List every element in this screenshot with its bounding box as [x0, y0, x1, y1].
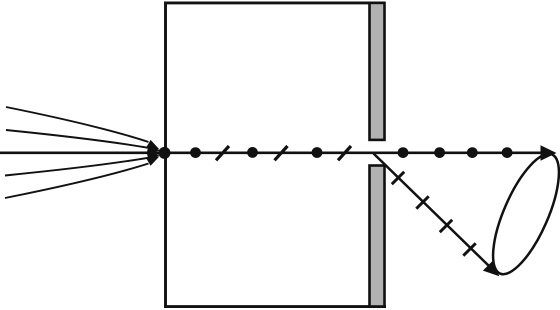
scattering slash 1 — [216, 146, 229, 160]
chamber box (left, top, bottom walls) — [164, 3, 386, 307]
scattered ray (diagonal from slit) — [374, 154, 490, 267]
beam dot 6 — [467, 147, 478, 158]
beam axis line — [0, 152, 542, 155]
top slit bar (gray) — [370, 3, 385, 140]
beam dot 3 — [312, 147, 323, 158]
beam dot 7 — [502, 147, 513, 158]
incoming ray 4 — [5, 158, 148, 176]
beam dot 5 — [434, 147, 445, 158]
incoming ray 2 — [6, 130, 148, 148]
beam dot 4 (after slit) — [398, 147, 409, 158]
incoming ray 1 arrowhead — [146, 140, 159, 150]
tick 4 on scattered ray — [463, 243, 475, 255]
incoming ray 5 (bottom) — [5, 164, 149, 199]
scattering slash 3 — [338, 146, 351, 160]
incoming ray 2 arrowhead — [147, 144, 160, 153]
detector ellipse — [480, 146, 560, 283]
bottom slit bar (gray) — [370, 166, 385, 307]
scattered ray arrowhead — [483, 260, 499, 276]
incoming ray 3 arrowhead (axial) — [149, 148, 161, 157]
source dot on left wall — [159, 147, 171, 159]
tick 2 on scattered ray — [416, 196, 428, 208]
incoming ray 1 (top) — [6, 107, 149, 142]
incoming ray 5 arrowhead — [146, 156, 159, 166]
scattering slash 2 — [275, 146, 288, 160]
beam dot 2 — [247, 147, 258, 158]
tick 3 on scattered ray — [440, 220, 452, 232]
beam axis arrowhead (right end) — [541, 145, 557, 160]
beam dot 1 — [190, 147, 201, 158]
tick 1 on scattered ray — [392, 172, 404, 184]
incoming ray 4 arrowhead — [147, 154, 160, 163]
